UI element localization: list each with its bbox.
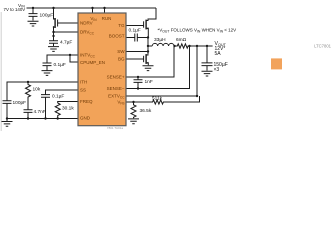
svg-text:10k: 10k xyxy=(33,86,41,92)
node boost-SW junction xyxy=(147,36,149,38)
svg-text:DRVCC: DRVCC xyxy=(80,30,95,36)
svg-text:EXTVCC: EXTVCC xyxy=(108,94,125,100)
svg-text:RUN: RUN xyxy=(102,16,112,21)
ground 36.5k xyxy=(128,119,139,124)
svg-text:GND: GND xyxy=(80,116,91,121)
node ITH-10k junction xyxy=(27,81,29,83)
capacitor 100uF input xyxy=(29,8,38,21)
svg-text:BG: BG xyxy=(118,57,125,62)
node sense- tap xyxy=(188,45,190,47)
capacitor 4.7uF xyxy=(49,39,58,47)
capacitor 1nF xyxy=(134,77,143,89)
IC U1 LTC7801 xyxy=(78,13,126,126)
svg-text:ITH: ITH xyxy=(80,80,87,85)
resistor 30.1k xyxy=(55,103,60,119)
resistor 6mOhm sense xyxy=(175,44,213,48)
node vfb divider junction xyxy=(132,101,134,103)
svg-text:*VOUT FOLLOWS VIN WHEN VIN < 1: *VOUT FOLLOWS VIN WHEN VIN < 12V xyxy=(158,28,237,34)
capacitor 0.1uF INTVCC xyxy=(43,63,52,66)
svg-text:SENSE−: SENSE− xyxy=(107,86,125,91)
transistor Q1 NDRV pass FET xyxy=(57,20,59,27)
resistor 36.5k xyxy=(131,102,136,118)
wire ITH xyxy=(7,82,78,101)
svg-text:INTVCC: INTVCC xyxy=(80,53,96,59)
wire RUN pin stub xyxy=(104,8,106,13)
svg-text:7V to 140V: 7V to 140V xyxy=(4,7,26,12)
capacitor 0.1uF boost xyxy=(126,34,148,42)
svg-text:SS: SS xyxy=(80,88,86,93)
svg-text:SW: SW xyxy=(117,49,125,54)
wire BG gate xyxy=(126,58,144,60)
ground output cap xyxy=(202,71,213,76)
svg-text:NDRV: NDRV xyxy=(80,21,93,26)
svg-text:4.7nF: 4.7nF xyxy=(34,109,46,115)
svg-text:7801 TA01a: 7801 TA01a xyxy=(107,126,123,130)
resistor 511k xyxy=(151,96,200,104)
svg-text:TG: TG xyxy=(118,23,125,28)
capacitor 4.7nF xyxy=(24,110,33,119)
svg-text:0.1µF: 0.1µF xyxy=(54,62,66,68)
wire VIN pin stub xyxy=(92,8,94,13)
svg-text:VFB: VFB xyxy=(117,100,124,106)
wire NDRV gate xyxy=(58,22,78,24)
wire DRVCC xyxy=(54,31,79,33)
capacitor 100pF xyxy=(3,101,12,119)
wire VIN to drain corner xyxy=(148,8,156,21)
node VIN-fet junction xyxy=(52,7,54,9)
wire SS xyxy=(46,90,79,95)
svg-text:33µH: 33µH xyxy=(154,37,166,43)
svg-text:0.1µF: 0.1µF xyxy=(129,27,141,33)
node CPUMP tie xyxy=(69,54,71,56)
node RUN pin junction xyxy=(103,7,105,9)
wire FREQ xyxy=(58,102,78,104)
resistor 10k xyxy=(26,82,31,110)
node DRVCC junction xyxy=(52,31,54,33)
svg-text:511k: 511k xyxy=(152,95,163,101)
wire VFB xyxy=(126,101,151,103)
wire EXTVCC xyxy=(126,46,197,96)
svg-text:LTC7801: LTC7801 xyxy=(314,44,332,49)
node L-sense junction xyxy=(173,45,175,47)
wire CPUMP_EN xyxy=(70,55,78,62)
svg-text:SENSE+: SENSE+ xyxy=(107,75,125,80)
ground INTVCC cap xyxy=(42,66,53,76)
wire GND rail xyxy=(7,118,78,120)
wire SENSE- xyxy=(126,46,190,89)
svg-text:6mΩ: 6mΩ xyxy=(176,37,187,43)
svg-text:30.1k: 30.1k xyxy=(62,106,74,112)
capacitor 150uF output xyxy=(202,46,213,71)
wire TG gate xyxy=(126,25,144,27)
capacitor 0.1uF SS xyxy=(41,95,50,119)
node cout tap xyxy=(206,45,208,47)
svg-text:FREQ: FREQ xyxy=(80,99,93,104)
svg-text:100pF: 100pF xyxy=(13,100,27,106)
svg-text:0.1µF: 0.1µF xyxy=(52,94,64,100)
svg-text:BOOST: BOOST xyxy=(109,34,125,39)
node extvcc-fb junction xyxy=(196,95,198,97)
transistor M1 top FET xyxy=(143,21,145,27)
svg-text:100µF: 100µF xyxy=(40,13,54,19)
wire INTVCC xyxy=(47,55,78,63)
node extv tap xyxy=(196,45,198,47)
node SW rail junction xyxy=(147,45,149,47)
pin labels xyxy=(80,16,125,120)
inductor L1 33uH xyxy=(148,43,175,46)
ground input cap xyxy=(28,21,39,26)
svg-text:4.7µF: 4.7µF xyxy=(60,39,72,45)
transistor M2 bottom FET xyxy=(143,56,145,62)
svg-text:5A: 5A xyxy=(215,51,222,57)
wire SENSE+ xyxy=(126,46,174,77)
node VIN pin junction xyxy=(91,7,93,9)
svg-text:36.5k: 36.5k xyxy=(140,108,152,114)
ground 4.7uF xyxy=(48,47,59,52)
node VIN-cap junction xyxy=(32,7,34,9)
svg-text:CPUMP_EN: CPUMP_EN xyxy=(80,60,105,65)
wire VIN rail xyxy=(27,7,157,9)
svg-text:×3: ×3 xyxy=(214,67,220,73)
node gnd rail junctions xyxy=(6,117,8,119)
frame left edge xyxy=(0,0,335,132)
node 1nF top xyxy=(137,76,139,78)
value labels xyxy=(4,3,237,115)
ground bottom FET xyxy=(143,66,154,71)
node 1nF bottom xyxy=(137,87,139,89)
orange square icon xyxy=(271,58,282,69)
svg-text:1nF: 1nF xyxy=(145,79,153,85)
wire SW pin xyxy=(126,51,148,53)
ground comp network xyxy=(2,119,13,127)
wire SW column xyxy=(147,38,149,55)
